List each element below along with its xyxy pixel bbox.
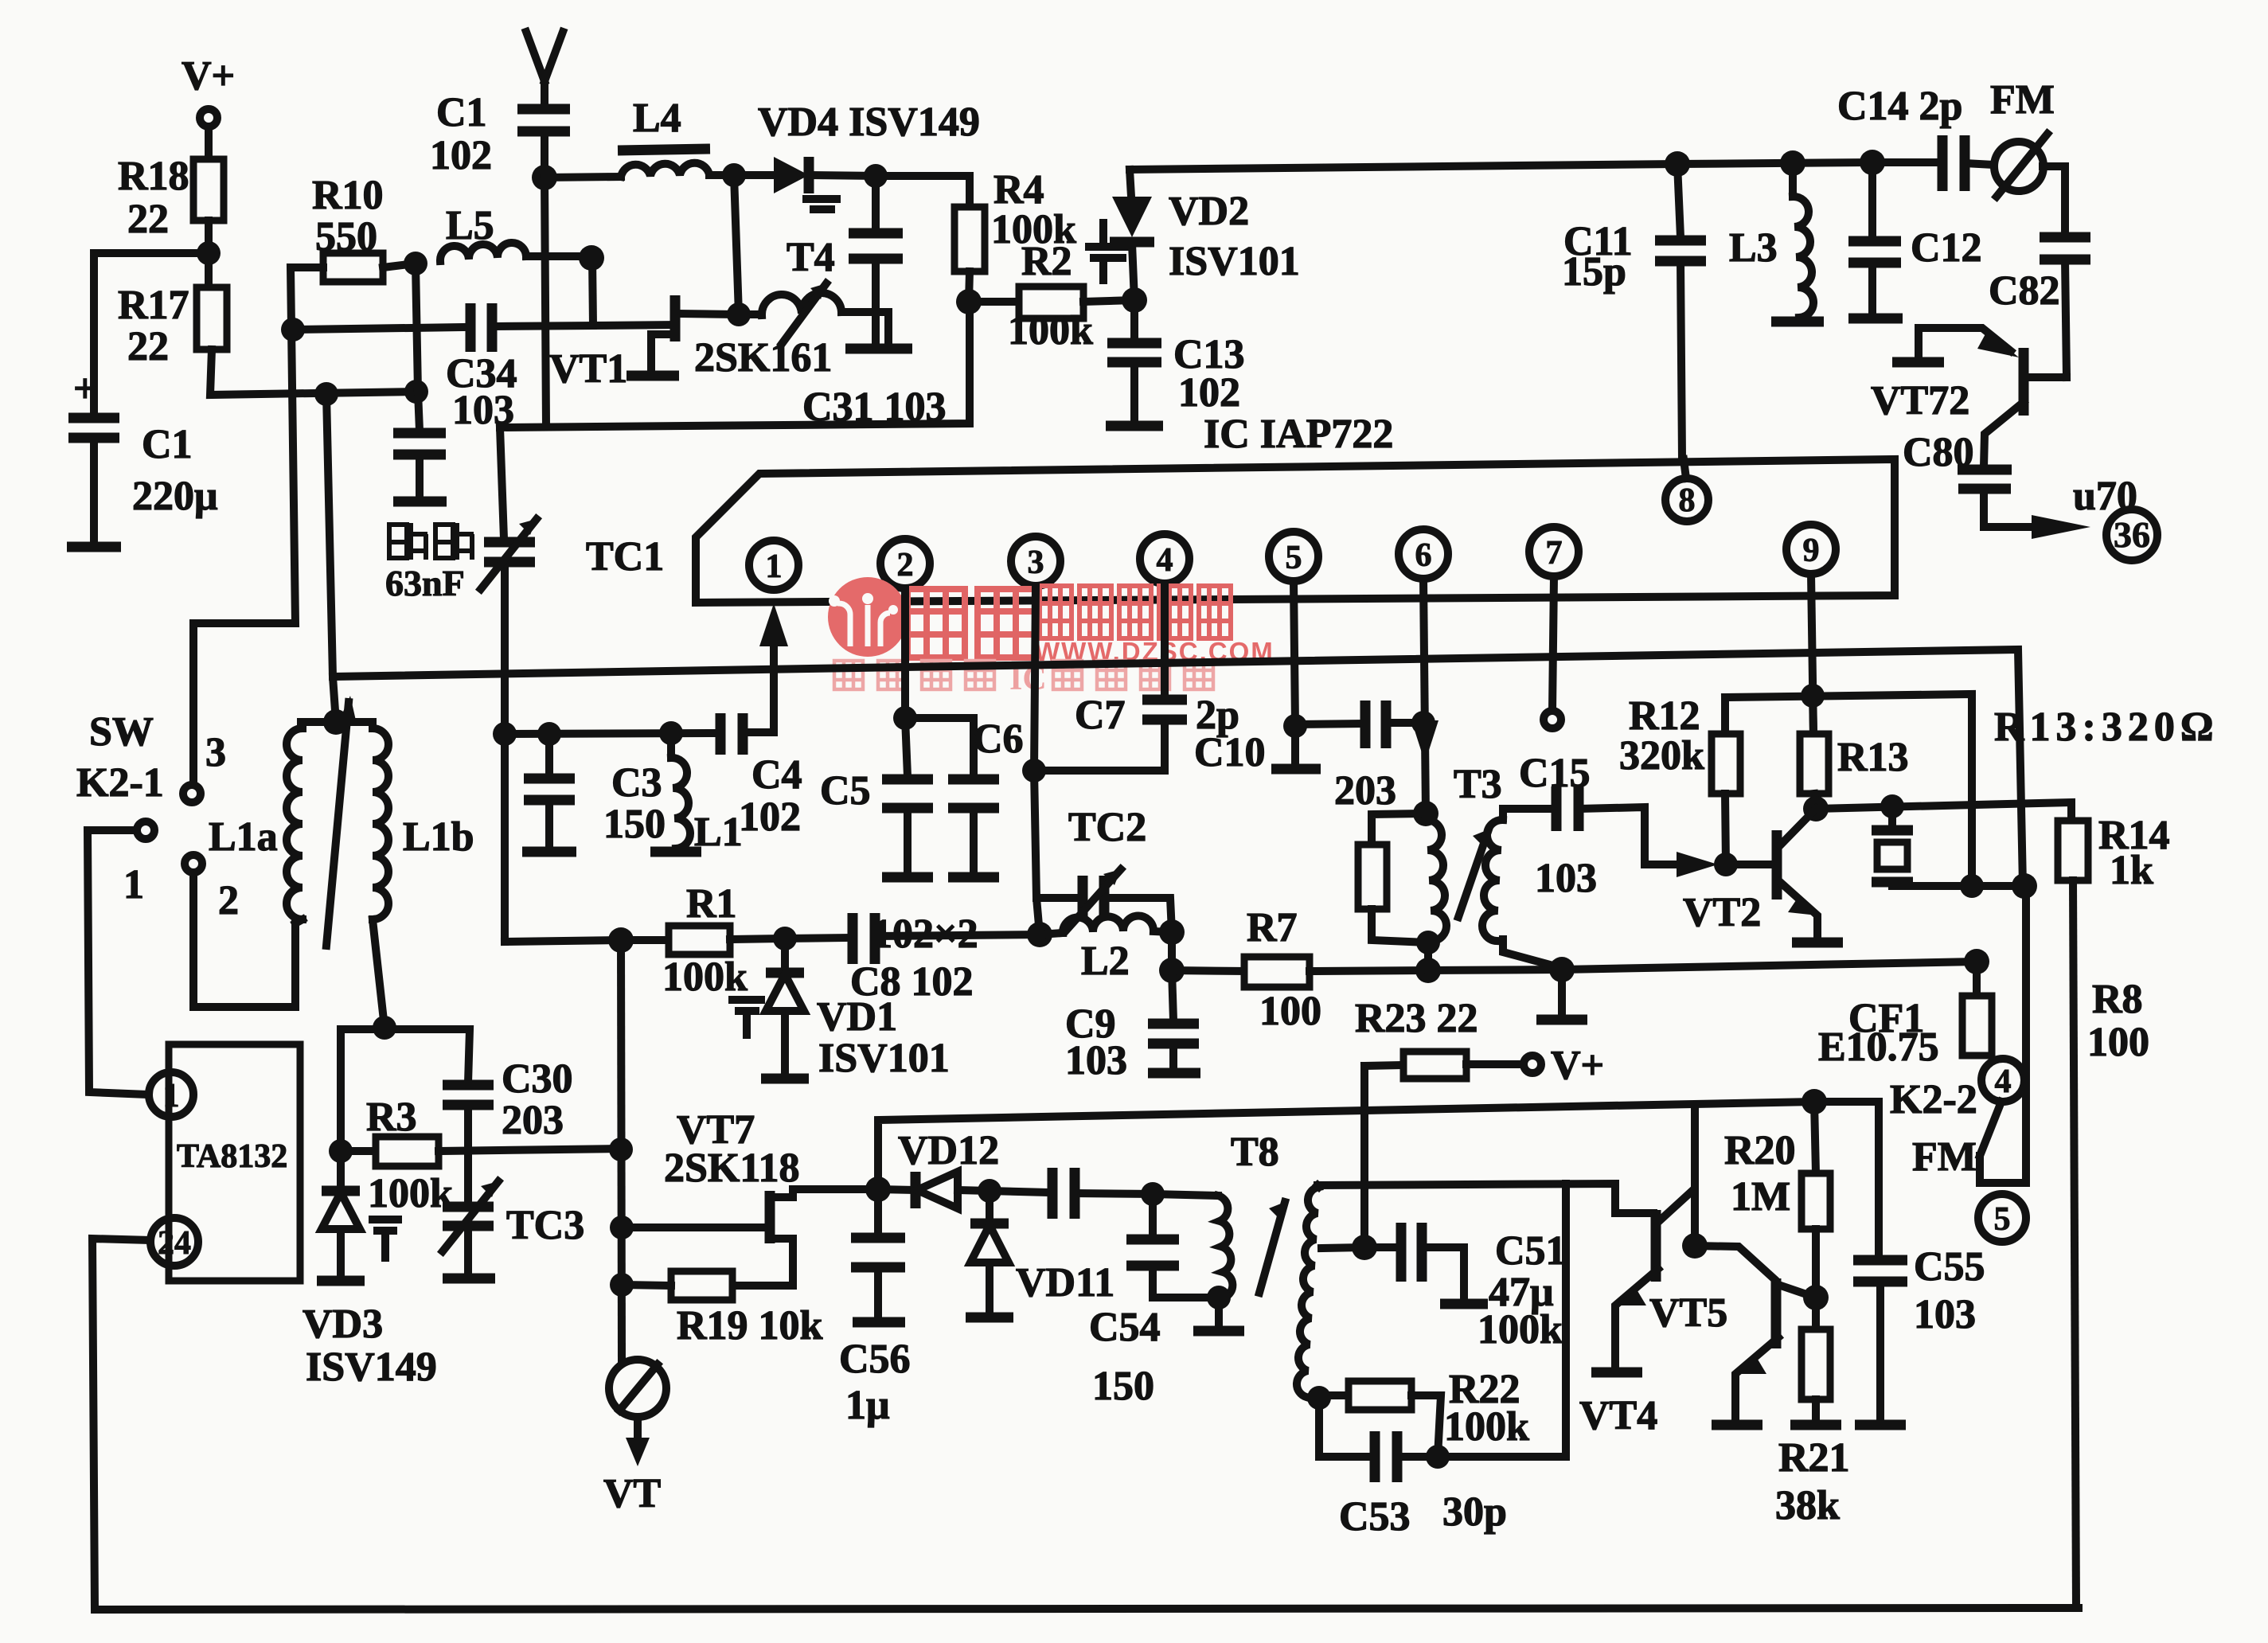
svg-text:8: 8	[1679, 482, 1696, 519]
svg-text:L5: L5	[446, 203, 494, 248]
svg-text:T8: T8	[1231, 1130, 1279, 1175]
svg-text:102: 102	[1178, 370, 1240, 416]
node junction VD4/C31	[864, 164, 888, 188]
wire C30 rail	[341, 1029, 470, 1151]
node junction L4/VD4	[722, 163, 746, 187]
node junction R2/VD2/C13	[1122, 287, 1147, 313]
svg-text:VT72: VT72	[1871, 378, 1969, 423]
wire crystal bottom to K2-2 rail	[1892, 882, 2024, 890]
node junction L2 right	[1159, 919, 1185, 945]
node junction VD3/R3	[329, 1139, 353, 1163]
node junction rail T3	[1415, 958, 1441, 983]
svg-text:R20: R20	[1724, 1128, 1796, 1173]
svg-text:L3: L3	[1729, 225, 1778, 271]
op-amp TA8132 box	[169, 1044, 300, 1281]
op-amp IC IAP722 box outline	[696, 459, 1895, 603]
node junction TC1 line	[493, 722, 517, 746]
svg-text:100k: 100k	[368, 1171, 453, 1216]
svg-text:C4: C4	[751, 752, 802, 798]
node junction L1b bottom	[373, 1016, 396, 1040]
wire R10 left lead down	[193, 267, 323, 785]
node junction gate	[610, 1216, 634, 1239]
wire rail D continue	[1428, 962, 1977, 970]
wire	[205, 127, 213, 159]
capacitor tiepian 63nF	[393, 392, 447, 501]
svg-text:VD11: VD11	[1016, 1260, 1114, 1305]
node junction K2-2 top	[2012, 873, 2037, 899]
node junction pin9/R13	[1801, 684, 1825, 708]
svg-text:103: 103	[1065, 1038, 1127, 1083]
antenna	[526, 32, 563, 105]
node junction R1 left	[608, 927, 634, 953]
node junction R18/R17	[197, 241, 221, 265]
transformer T3 secondary	[1458, 809, 1562, 968]
node switch terminal 2	[185, 855, 239, 923]
wire R1 line	[505, 940, 621, 942]
wire C31 bottom rail to R2 junction	[500, 302, 970, 427]
svg-text:150: 150	[1092, 1364, 1154, 1409]
svg-text:C53: C53	[1339, 1494, 1411, 1540]
svg-text:V+: V+	[1551, 1043, 1604, 1088]
node junction VT2 collector	[1803, 796, 1829, 821]
node junction T3 top	[1413, 801, 1438, 826]
svg-text:R13:320Ω: R13:320Ω	[1994, 704, 2219, 750]
inductor L2	[1040, 915, 1172, 984]
svg-text:R8: R8	[2092, 977, 2143, 1022]
svg-text:SW: SW	[89, 709, 154, 755]
svg-text:L4: L4	[633, 96, 681, 141]
svg-text:6: 6	[1415, 537, 1432, 574]
capacitor C9 103	[1065, 970, 1200, 1083]
wire VT4 base line from T8 top	[1317, 1184, 1653, 1213]
transformer T8 secondary	[1297, 1185, 1364, 1397]
node VT test point circle	[603, 1360, 666, 1516]
node switch terminal 3	[183, 730, 226, 802]
svg-text:VD3: VD3	[303, 1302, 383, 1347]
node junction C10 right	[1411, 711, 1435, 735]
node junction T8 primary bottom	[1207, 1286, 1231, 1309]
svg-text:R12: R12	[1629, 693, 1700, 739]
wire R17 bottom jog	[210, 349, 416, 395]
node junction C34 left	[281, 318, 305, 341]
wire T3 bottom to rail	[1424, 942, 1432, 970]
svg-text:5: 5	[1994, 1201, 2011, 1238]
svg-text:C56: C56	[839, 1337, 911, 1382]
node junction L2 left	[1027, 922, 1052, 947]
svg-text:103: 103	[1535, 856, 1597, 901]
wire TA8132 pin24 to bottom rail	[92, 1239, 2079, 1610]
inductor L5	[440, 203, 526, 261]
node junction C53/R22	[1426, 1445, 1450, 1469]
watermark logo circle	[828, 577, 908, 657]
capacitor C5	[820, 718, 933, 877]
svg-text:R2: R2	[1021, 239, 1072, 284]
wire	[205, 220, 213, 287]
resistor R12 320k	[1619, 693, 1740, 864]
svg-text:7: 7	[1546, 535, 1563, 572]
node junction L1	[659, 721, 683, 745]
wire pin3 stem down	[1034, 586, 1040, 935]
resistor R10	[312, 173, 384, 282]
svg-text:TC2: TC2	[1068, 805, 1146, 850]
svg-text:100k: 100k	[662, 954, 748, 1000]
svg-text:550: 550	[315, 214, 377, 260]
svg-text:R4: R4	[993, 167, 1044, 213]
resistor R21 38k	[1775, 1329, 1850, 1528]
node junction T4 left	[727, 302, 751, 326]
svg-text:2SK118: 2SK118	[664, 1145, 800, 1191]
node IC pin 7	[1529, 527, 1579, 576]
node V+ terminal top-left	[182, 53, 235, 127]
svg-text:TC1: TC1	[586, 534, 664, 580]
trimmer TC3	[443, 1181, 584, 1278]
wire	[969, 271, 970, 302]
svg-text:C12: C12	[1911, 225, 1982, 271]
svg-text:100k: 100k	[1478, 1307, 1563, 1352]
svg-text:+: +	[73, 366, 97, 412]
capacitor C30 203	[443, 1056, 573, 1204]
node IC pin 9	[1786, 525, 1836, 574]
svg-text:C10: C10	[1194, 730, 1266, 775]
wire pin9 stem	[1811, 574, 1813, 734]
wire VD4 junction right to R4	[876, 176, 970, 207]
wire junction down to T4	[734, 175, 739, 314]
wire antenna line down	[545, 178, 546, 427]
svg-text:R23 22: R23 22	[1355, 996, 1478, 1041]
capacitor C6	[905, 716, 1024, 877]
transistor VT4	[1579, 1106, 1695, 1438]
node junction C54/T8	[1141, 1182, 1165, 1206]
svg-text:VD12: VD12	[898, 1128, 999, 1173]
wire VT7 vertical	[621, 940, 622, 1361]
watermark slogan chars	[834, 661, 1213, 697]
resistor R17	[118, 283, 227, 369]
inductor L3	[1729, 163, 1824, 322]
node junction L1 top	[323, 709, 349, 735]
node junction VT2 base	[1714, 853, 1738, 876]
svg-text:TA8132: TA8132	[177, 1138, 287, 1175]
node K2-2 pin5	[1978, 1194, 2026, 1242]
svg-text:C30: C30	[502, 1056, 573, 1102]
svg-text:C80: C80	[1903, 430, 1974, 475]
wire L5 right to junction	[526, 252, 591, 260]
wire to C1	[94, 253, 209, 414]
svg-text:4: 4	[1995, 1063, 2012, 1100]
node junction ground T3	[1549, 957, 1575, 982]
svg-text:VT2: VT2	[1683, 890, 1761, 935]
svg-text:R7: R7	[1247, 905, 1298, 950]
diode VD12	[878, 1128, 999, 1208]
capacitor series osc	[990, 1168, 1153, 1219]
wire pin5 stem	[1294, 581, 1295, 726]
capacitor C1 102 top	[430, 90, 570, 178]
wire VT2 collector to R14	[1816, 802, 2071, 821]
svg-text:15p: 15p	[1562, 249, 1626, 295]
svg-text:L1a: L1a	[209, 814, 278, 860]
node junction C11	[1665, 151, 1690, 177]
diode VD2 ISV101 varactor	[1089, 170, 1300, 300]
svg-text:C14 2p: C14 2p	[1837, 84, 1962, 129]
capacitor C10 203	[1194, 701, 1423, 814]
capacitor C8 102	[785, 913, 1040, 1005]
node junction R10/L5	[404, 252, 427, 275]
node junction R20/R21/VT5	[1803, 1285, 1829, 1310]
svg-text:C54: C54	[1089, 1305, 1161, 1350]
node junction VD11	[978, 1179, 1001, 1203]
svg-text:2: 2	[218, 878, 239, 923]
node switch terminal 1	[123, 821, 154, 907]
svg-text:VT1: VT1	[549, 346, 627, 392]
svg-text:5: 5	[1286, 540, 1302, 576]
node IC pin 4	[1140, 534, 1189, 583]
transformer L1b	[336, 722, 474, 1028]
diode VD1 ISV101 varactor	[732, 939, 950, 1081]
svg-text:3: 3	[1028, 544, 1044, 581]
svg-text:R21: R21	[1778, 1435, 1850, 1481]
wire rail B long horizontal	[333, 650, 2023, 886]
wire pin8 stem	[1684, 459, 1686, 478]
svg-text:203: 203	[502, 1098, 564, 1143]
transistor VT1 2SK161 JFET	[549, 295, 832, 392]
svg-text:IC IAP722: IC IAP722	[1204, 412, 1393, 457]
wire oscillator top rail	[878, 1102, 1879, 1257]
svg-text:1: 1	[766, 548, 783, 585]
node circled 36	[2106, 509, 2157, 560]
wire FM to C82	[2043, 166, 2065, 234]
svg-text:C15: C15	[1519, 751, 1591, 796]
wire R10 right	[383, 263, 416, 267]
node junction x2477	[1960, 874, 1984, 898]
wire terminal1 to TA8132 pin1	[88, 830, 149, 1095]
svg-text:VT: VT	[603, 1471, 661, 1516]
node junction L5/VT1	[579, 245, 604, 271]
svg-text:R10: R10	[312, 173, 384, 218]
wire feedback vertical to VT4 base line	[1562, 1184, 1570, 1457]
node open terminal pin7	[1544, 711, 1561, 728]
node V+ terminal right	[1524, 1043, 1604, 1088]
ground T3 secondary	[1536, 970, 1587, 1020]
svg-text:C82: C82	[1989, 268, 2060, 314]
wire R12 top to R13 top rail	[1725, 694, 1972, 886]
node junction C3	[537, 722, 561, 746]
wire pin6 stem with arrow	[1411, 579, 1438, 814]
wire R23 vertical	[1360, 1066, 1368, 1247]
wire L1 variable arrow	[326, 696, 356, 946]
node junction C12/C14	[1860, 150, 1885, 175]
svg-text:24: 24	[158, 1225, 191, 1262]
svg-text:1μ: 1μ	[845, 1383, 889, 1428]
svg-text:ISV149: ISV149	[306, 1344, 437, 1390]
capacitor C53 30p	[1319, 1398, 1566, 1540]
wire pin7 stem to open terminal	[1552, 576, 1554, 711]
crystal ceramic resonator	[1872, 806, 1913, 886]
capacitor C1 220u polarized	[67, 366, 217, 547]
capacitor C82	[1989, 237, 2090, 377]
svg-text:1M: 1M	[1731, 1174, 1790, 1220]
transformer T4 variable inductor	[739, 235, 888, 344]
wire arrow up to pin1	[759, 603, 788, 732]
resistor R14 1k	[2058, 813, 2170, 1608]
wire vertical x522 down to chip cap	[416, 263, 418, 392]
node junction x410	[314, 382, 338, 406]
node junction x523	[404, 380, 428, 404]
node TA8132 pin24	[150, 1218, 198, 1266]
wire pin2 stem	[901, 588, 909, 718]
svg-text:C1: C1	[436, 90, 487, 135]
svg-text:1: 1	[163, 1078, 180, 1114]
svg-text:C55: C55	[1914, 1244, 1985, 1290]
svg-text:100: 100	[2087, 1020, 2149, 1065]
wire C3/L1/C4 line	[505, 733, 720, 734]
svg-text:R1: R1	[686, 881, 737, 927]
node IC pin 1	[749, 541, 798, 590]
svg-text:30p: 30p	[1442, 1489, 1507, 1535]
svg-text:C6: C6	[973, 716, 1024, 762]
svg-text:ISV101: ISV101	[818, 1036, 950, 1081]
label SW K2-1	[76, 709, 164, 806]
wire left vertical to L1 transformer	[326, 394, 336, 722]
svg-text:1k: 1k	[2110, 848, 2153, 893]
svg-text:K2-1: K2-1	[76, 760, 164, 806]
node TA8132 pin1	[149, 1072, 193, 1117]
ground pin5	[1271, 726, 1321, 769]
node junction R4/R2	[956, 289, 982, 314]
svg-text:3: 3	[205, 730, 226, 775]
diode VD4 ISV149 varactor	[734, 100, 980, 209]
switch K2-2	[1890, 886, 2026, 1183]
wire rail A top	[1130, 162, 1938, 170]
node junction L3	[1780, 150, 1805, 176]
svg-text:150: 150	[603, 802, 666, 847]
capacitor C15 103	[1519, 751, 1718, 901]
transistor VT2	[1683, 809, 1843, 942]
svg-text:L1b: L1b	[403, 814, 474, 860]
svg-text:C3: C3	[611, 760, 662, 806]
resistor R23 22	[1355, 996, 1524, 1079]
svg-text:9: 9	[1803, 533, 1820, 569]
node junction C10 left	[1283, 714, 1307, 738]
node junction T3 primary bottom	[1416, 931, 1440, 954]
node junction R20 top rail	[1802, 1089, 1827, 1114]
svg-text:C5: C5	[820, 768, 871, 814]
wire junction down to C34 line	[592, 258, 593, 326]
svg-text:VT4: VT4	[1579, 1393, 1657, 1438]
svg-text:V+: V+	[182, 53, 235, 99]
node IC pin 6	[1399, 529, 1448, 579]
ground T8 primary	[1193, 1298, 1244, 1331]
transformer L1a	[209, 722, 336, 923]
svg-text:22: 22	[127, 324, 169, 369]
svg-text:R3: R3	[366, 1095, 417, 1140]
label tiepian 63nF	[385, 523, 474, 603]
transformer T8 primary	[1153, 1130, 1285, 1298]
watermark weiku chars	[908, 589, 1035, 658]
capacitor C13	[1106, 300, 1245, 426]
resistor R13	[1800, 696, 1909, 809]
svg-text:R18: R18	[118, 154, 189, 199]
resistor R4	[954, 167, 1076, 271]
node junction crystal top	[1880, 794, 1904, 818]
wire VT4 collector tap	[1695, 1188, 1774, 1278]
svg-text:103: 103	[1914, 1292, 1976, 1337]
capacitor C34	[293, 303, 593, 433]
svg-text:1: 1	[123, 862, 144, 907]
svg-text:VD4 ISV149: VD4 ISV149	[758, 100, 980, 145]
trimmer TC2	[1036, 805, 1172, 932]
svg-text:100: 100	[1259, 989, 1321, 1034]
node IC pin 3	[1011, 537, 1060, 586]
watermark dianzishichangwang chars	[1040, 586, 1231, 638]
node junction C5/C6	[893, 706, 917, 730]
diode VD11	[966, 1191, 1114, 1317]
svg-text:R17: R17	[118, 283, 189, 328]
svg-text:VT5: VT5	[1649, 1290, 1727, 1336]
resistor R3 100k	[341, 1095, 620, 1216]
node junction T8 tap / C51	[1352, 1235, 1377, 1260]
wire arrow to pin36	[2032, 474, 2137, 539]
svg-text:36: 36	[2114, 514, 2150, 555]
transistor VT5	[1649, 1278, 1816, 1425]
svg-text:22: 22	[127, 197, 169, 242]
svg-text:2SK161: 2SK161	[694, 335, 832, 381]
svg-text:102: 102	[739, 794, 801, 840]
svg-text:100k: 100k	[1444, 1404, 1529, 1450]
resistor R18	[118, 154, 224, 242]
capacitor C51 47u	[1364, 1223, 1567, 1352]
node IC pin 5	[1269, 532, 1318, 581]
node junction T8 secondary bottom	[1307, 1386, 1331, 1410]
capacitor C56 1u	[839, 1189, 911, 1428]
svg-text:C1: C1	[142, 422, 193, 467]
svg-text:FM: FM	[1990, 77, 2055, 123]
capacitor C31	[802, 176, 947, 430]
svg-text:L2: L2	[1081, 939, 1130, 984]
wire terminal2 to L1a bottom	[193, 872, 295, 1007]
node junction VD1/C8	[773, 927, 797, 950]
svg-text:ISV101: ISV101	[1169, 239, 1300, 284]
svg-text:C7: C7	[1075, 693, 1126, 738]
node IC pin 2	[880, 539, 930, 588]
resistor R1 100k	[621, 881, 785, 1000]
node junction R3/VT7 line	[609, 1138, 633, 1161]
svg-text:63nF: 63nF	[385, 563, 465, 603]
capacitor C14 2p	[1837, 84, 1993, 191]
resistor R2	[969, 239, 1134, 353]
capacitor C55 103	[1853, 1244, 1985, 1425]
svg-text:T3: T3	[1454, 762, 1502, 807]
svg-text:VD2: VD2	[1169, 189, 1249, 234]
resistor R7 100	[1172, 905, 1428, 1034]
svg-text:K2-2: K2-2	[1890, 1077, 1977, 1122]
svg-text:R19 10k: R19 10k	[677, 1303, 823, 1348]
svg-text:L1: L1	[694, 810, 743, 855]
capacitor C7 2p	[1034, 583, 1239, 771]
node K2-2 pin4	[1981, 1059, 2024, 1102]
svg-text:E10.75: E10.75	[1818, 1024, 1939, 1070]
capacitor C12	[1848, 162, 1982, 318]
wire L2 right down to R7	[1168, 932, 1176, 970]
svg-text:T4: T4	[787, 235, 835, 280]
transistor VT7 2SK118 JFET	[622, 1107, 878, 1286]
svg-text:FM: FM	[1912, 1134, 1977, 1180]
node junction antenna/L4	[532, 165, 557, 190]
svg-text:100k: 100k	[1008, 308, 1093, 353]
capacitor C54 150	[1089, 1194, 1219, 1409]
svg-text:38k: 38k	[1775, 1483, 1840, 1528]
label R8 100	[2087, 977, 2149, 1065]
node FM antenna jack top	[1990, 77, 2055, 197]
svg-text:220μ: 220μ	[132, 474, 217, 519]
